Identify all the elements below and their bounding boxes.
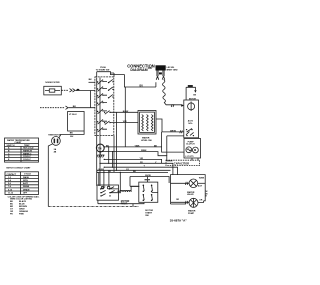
power cord wire (dashed) [61, 89, 68, 91]
title CONNECTION DIAGRAM [127, 63, 155, 72]
timer motor label [54, 148, 57, 154]
svg-text:BK: BK [89, 79, 93, 81]
wire timer motor to bleach rect [59, 131, 84, 138]
neutral connector arrow [66, 106, 69, 109]
branch wire Y/BK [104, 147, 184, 152]
svg-text:COLD-C: COLD-C [23, 159, 31, 161]
wire to pump [171, 201, 189, 203]
branch wire T [104, 167, 177, 175]
solenoid lower contacts [186, 128, 194, 136]
svg-text:SPIN: SPIN [23, 180, 28, 182]
water level switch box [138, 111, 156, 135]
bleach hose rectangle [68, 112, 85, 132]
svg-text:CYCLE: CYCLE [24, 174, 31, 176]
water level contact springs [142, 115, 144, 132]
svg-text:L1 T4 T5: L1 T4 T5 [185, 155, 194, 158]
unbalance switch box [97, 185, 119, 200]
push-to-start label [96, 67, 110, 71]
hot valve solenoid [189, 179, 198, 188]
wire to hot valve [171, 182, 190, 184]
pump coil left [186, 147, 192, 153]
lid switch plug (filled block) [156, 65, 166, 70]
solenoid label [188, 119, 194, 124]
junction dots [97, 146, 121, 173]
svg-text:TEMP: TEMP [24, 145, 30, 147]
harness vertical label [206, 191, 209, 198]
motor feed connector blob [188, 85, 193, 87]
svg-text:BRKT GRD: BRKT GRD [167, 70, 178, 72]
timer contact 1 [97, 80, 107, 85]
svg-text:DRAIN: DRAIN [23, 188, 30, 191]
svg-text:W/BK: W/BK [141, 150, 147, 152]
svg-text:BU/W: BU/W [145, 175, 151, 177]
svg-text:VALVE: VALVE [187, 193, 194, 196]
vertical bus wire B [99, 78, 101, 187]
timer motor T2 [96, 144, 104, 152]
cord connector arrows [70, 89, 76, 92]
spin solenoid box [184, 100, 199, 138]
motor feed arrowhead [194, 90, 196, 93]
svg-text:SWITCH: SWITCH [7, 145, 15, 147]
unbalance contacts [100, 188, 111, 196]
timer contact 6 [97, 119, 107, 124]
svg-text:Y/R: Y/R [140, 158, 144, 160]
svg-text:CAPACITOR: CAPACITOR [174, 161, 189, 165]
svg-text:LEVEL SW.: LEVEL SW. [141, 140, 152, 142]
harness connector break [171, 104, 174, 107]
branch wire BU/W long [98, 169, 171, 171]
start switch contacts [143, 184, 158, 201]
timer contact 10 [108, 95, 114, 99]
svg-text:TO START SW: TO START SW [96, 68, 110, 71]
branch wire Y [104, 159, 161, 163]
motor feed goalpost wire [186, 87, 195, 100]
unbalance pivots [101, 186, 104, 189]
svg-text:COLD-C: COLD-C [23, 156, 31, 158]
power cord neutral wire (dashed) [40, 107, 65, 109]
junction verticals [109, 112, 117, 170]
timer contact 2 [97, 87, 107, 92]
timer contact 5 [97, 109, 107, 114]
svg-text:W/BK: W/BK [199, 177, 205, 179]
start switch riser [147, 177, 149, 183]
cycle chart text [7, 139, 34, 161]
svg-text:BU: BU [70, 136, 74, 138]
svg-text:AGIT.: AGIT. [23, 182, 29, 185]
start switch top label smudge [145, 179, 151, 180]
unbalance switch risers [99, 170, 109, 186]
wire color legend [8, 195, 40, 215]
vertical bus wire C [113, 136, 115, 173]
svg-text:RINSE: RINSE [23, 186, 30, 188]
wire water level feed 2 [105, 121, 138, 125]
water pump label [188, 210, 196, 215]
svg-text:HOT-COLD: HOT-COLD [23, 148, 34, 150]
svg-text:DIAGRAM: DIAGRAM [130, 68, 147, 72]
svg-text:11-12: 11-12 [8, 192, 14, 194]
wire hot valve to right edge [198, 182, 206, 184]
pump label [186, 141, 195, 145]
svg-text:TM: TM [98, 146, 102, 150]
svg-text:OR: OR [148, 67, 152, 70]
prong center blob [159, 72, 162, 74]
wire from knob label to timer [111, 73, 115, 77]
timer contact 7 [97, 127, 107, 132]
vertical bus wire D [124, 87, 126, 147]
svg-text:35-6879 "A": 35-6879 "A" [170, 218, 187, 222]
svg-text:SOL.: SOL. [188, 123, 193, 125]
connector arrows [180, 130, 183, 133]
wire water level to spin solenoid [156, 119, 184, 132]
svg-text:PUMP: PUMP [188, 213, 195, 215]
svg-text:WARM-W: WARM-W [23, 150, 32, 153]
wire water level feed 1 [105, 111, 138, 115]
motor protector label [121, 201, 130, 205]
timer switch bank box [95, 77, 114, 136]
svg-text:NOISE FILTER: NOISE FILTER [45, 82, 60, 84]
vertical bus wire A [96, 78, 98, 187]
pump coil right [193, 147, 199, 153]
svg-text:BU/W: BU/W [99, 169, 105, 171]
water valve box [171, 175, 206, 204]
svg-text:M: M [194, 148, 196, 152]
bottom wire run [48, 206, 139, 208]
branch wire BK long [98, 171, 168, 173]
svg-text:BK: BK [133, 171, 137, 173]
timer contact 8 [108, 79, 114, 83]
valve connector arrows [185, 182, 188, 185]
wire pump to right edge [198, 201, 204, 203]
pump clutch box [184, 139, 201, 159]
prong forks [156, 76, 165, 80]
svg-text:BU: BU [140, 85, 144, 88]
branch wire PK [100, 163, 173, 175]
pump connector arrows [185, 201, 188, 204]
timer contact 4 [97, 101, 107, 106]
wire noise filter loop [89, 91, 91, 108]
svg-text:Y/BK: Y/BK [135, 145, 140, 147]
wire cord to timer [75, 90, 95, 92]
svg-text:WIRE COLOR LISTING: WIRE COLOR LISTING [10, 199, 32, 201]
wire timer feed [89, 81, 95, 83]
capacitor box [166, 160, 200, 165]
water level switch label [141, 136, 152, 142]
motor protector coil [120, 172, 139, 192]
lid switch plug prongs [157, 71, 164, 77]
noise filter box [44, 86, 62, 95]
svg-text:BK: BK [154, 145, 158, 147]
chassis ground [97, 152, 105, 158]
solenoid coil circle [188, 103, 195, 110]
wire into start box [130, 177, 139, 187]
svg-text:BR/W: BR/W [170, 130, 176, 132]
start switch label [145, 210, 153, 217]
cord plug blob [76, 89, 80, 91]
motor start switch box [139, 182, 158, 202]
timer contact 9 [108, 87, 114, 91]
svg-text:BK: BK [70, 133, 74, 135]
svg-text:LT. BLU: LT. BLU [69, 114, 77, 116]
wire start box bottom [126, 203, 144, 207]
wire BU to lid switch [97, 72, 156, 87]
svg-text:CONTACT: CONTACT [7, 173, 17, 176]
pump box capacitor stubs [192, 158, 198, 160]
wire timer motor down-left and bottom run [48, 144, 52, 207]
svg-text:PINK: PINK [19, 214, 24, 216]
timer motor T1 [52, 137, 61, 146]
wire neutral to timer [68, 107, 95, 109]
wire lower solenoid contact [167, 136, 184, 156]
timer contact 3 [97, 93, 107, 98]
wire BU/W to valve box [130, 177, 169, 184]
svg-text:BU/W: BU/W [123, 111, 129, 113]
contact chart text [7, 173, 32, 195]
svg-text:SW.: SW. [145, 215, 149, 217]
svg-text:WASH: WASH [23, 176, 30, 179]
svg-text:WARM-C: WARM-C [23, 152, 32, 155]
svg-text:PK: PK [140, 162, 143, 164]
unbalance to bottom wire [98, 200, 126, 204]
lid switch label [167, 67, 178, 71]
lid switch harness wavy wire [162, 80, 182, 105]
cycle chart table [5, 138, 39, 162]
contact chart table [5, 172, 39, 195]
hot valve label [187, 191, 195, 196]
branch wire W [100, 152, 172, 161]
svg-text:V/W: V/W [123, 121, 127, 123]
cold valve / pump motor [189, 198, 198, 207]
wire junction riser from BR/W [161, 132, 163, 147]
svg-text:CLUTCH: CLUTCH [186, 144, 195, 146]
noise filter internal element [45, 90, 60, 92]
svg-text:CHART: CHART [15, 141, 23, 144]
harness arrowhead into solenoid box [181, 104, 184, 106]
svg-text:SWITCH CONTACT CHART: SWITCH CONTACT CHART [6, 166, 31, 169]
